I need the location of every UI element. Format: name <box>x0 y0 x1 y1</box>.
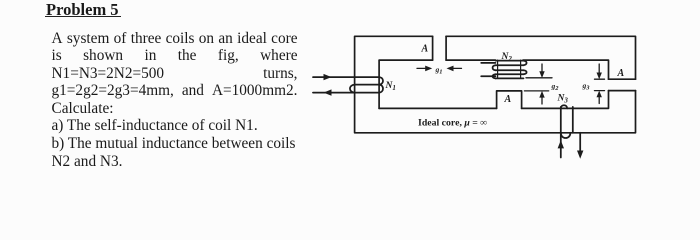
coil N3 turn verticals <box>561 107 573 133</box>
bottom bar top edge left window <box>379 107 497 109</box>
g3 up arrow shaft <box>598 97 600 104</box>
coil N3 top bump <box>561 105 567 108</box>
heading <box>45 4 121 18</box>
inner edge of top bar right of coil N2 to right limb <box>523 60 609 79</box>
current arrow out of N1 (left) <box>324 89 332 95</box>
inner edge of top bar right of g1 <box>446 59 495 61</box>
svg-text:A: A <box>617 68 625 79</box>
svg-text:A: A <box>504 94 512 105</box>
N3 lead up arrowhead <box>558 140 564 148</box>
g2 dimension bottom extension line <box>524 90 548 92</box>
core outer boundary top-right above gap g3 <box>446 36 635 79</box>
coil N1 right bump 2 <box>379 85 383 93</box>
core outer boundary left/bottom/right-lower <box>355 36 636 133</box>
svg-text:Ideal core, μ = ∞: Ideal core, μ = ∞ <box>418 118 487 129</box>
svg-text:g3: g3 <box>582 81 591 92</box>
g2 up arrow shaft <box>541 98 543 105</box>
coil N3 left lead <box>560 133 562 158</box>
svg-text:g2: g2 <box>551 82 560 93</box>
g1 right arrowhead <box>447 66 454 72</box>
inner edge of top bar left of g1 and left window <box>379 60 433 108</box>
g1 left arrowhead <box>425 66 432 72</box>
coil N3 bottom bump <box>561 133 571 138</box>
coil N1 right bump 1 <box>379 77 383 85</box>
coil N2 turns <box>496 61 524 79</box>
gap g1 right wall <box>445 36 447 60</box>
coil N3 right lead <box>579 133 581 151</box>
svg-text:N1: N1 <box>385 81 396 92</box>
g2 down arrow shaft <box>541 64 543 72</box>
problem text <box>52 30 298 171</box>
coil N1 left bump <box>350 85 355 93</box>
g3 up arrowhead <box>597 91 602 98</box>
current arrow into N1 (right) <box>324 74 332 80</box>
bottom bar top edge right window <box>522 91 609 109</box>
coil N2 lead lower <box>481 75 495 77</box>
coil N2 left bumps <box>493 65 496 78</box>
g2 down arrowhead <box>539 71 544 78</box>
svg-text:N3: N3 <box>557 94 569 105</box>
coil N1 middle turn <box>355 84 380 86</box>
g2 up arrowhead <box>539 91 544 98</box>
g1 dimension right arrow shaft <box>452 67 462 69</box>
gap g3 upper edge <box>609 78 636 80</box>
svg-text:g1: g1 <box>435 65 443 76</box>
g3 down arrowhead <box>597 73 602 80</box>
center limb N2 sides <box>498 60 521 77</box>
gap g1 left wall <box>432 36 434 60</box>
g2 dimension top extension line <box>526 77 552 79</box>
g1 dimension left arrow shaft <box>417 67 427 69</box>
svg-text:N2: N2 <box>501 52 513 63</box>
gap g3 lower edge <box>609 90 636 92</box>
g3 down arrow shaft <box>598 64 600 73</box>
coil N2 lead upper <box>481 62 495 64</box>
N3 lead down arrowhead <box>577 151 583 159</box>
coil N1 wire top lead <box>313 76 379 78</box>
center pole A block on bottom bar <box>497 91 522 109</box>
g3 dimension bottom extension line <box>595 90 605 92</box>
g3 dimension top extension line <box>595 78 605 80</box>
svg-text:A: A <box>421 44 429 55</box>
coil N1 bottom lead <box>313 92 379 94</box>
coil N2 right bumps <box>524 61 527 75</box>
